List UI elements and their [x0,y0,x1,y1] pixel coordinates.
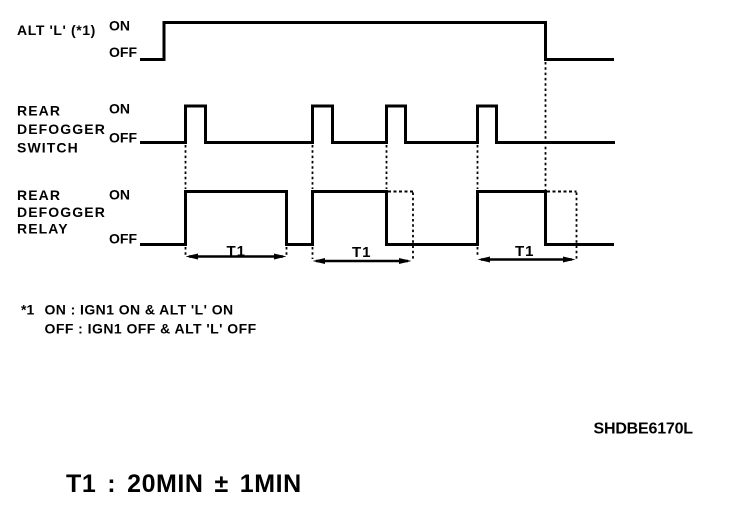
svg-text:OFF: OFF [109,44,137,60]
T1 label 1 [227,243,247,260]
OFF level label row3 [109,231,137,247]
waveform ALT 'L' [140,23,614,60]
T1 label 2 [352,244,372,261]
svg-text:OFF: OFF [109,130,137,146]
waveform REAR DEFOGGER SWITCH [140,106,615,143]
svg-text:OFF: OFF [109,231,137,247]
ON level label row1 [109,18,130,34]
svg-text:T1 : 20MIN ± 1MIN: T1 : 20MIN ± 1MIN [66,470,302,498]
signal label REAR DEFOGGER RELAY [17,187,106,237]
dotted timing line at switch pulse2 rise x=312.5 [312,145,314,259]
svg-text:REAR: REAR [17,103,61,119]
footnote *1 line 1 [21,302,234,318]
footnote *1 line 2 [45,321,257,337]
svg-text:DEFOGGER: DEFOGGER [17,121,106,137]
dotted timing line at switch pulse1 rise x=185.5 [185,145,187,256]
figure code SHDBE6170L [594,421,694,438]
T1 interval arrow 3 [478,257,576,263]
svg-text:*1: *1 [21,302,34,318]
signal label REAR DEFOGGER SWITCH [17,103,106,156]
svg-text:ON: ON [109,101,130,117]
svg-text:OFF : IGN1 OFF & ALT 'L' OFF: OFF : IGN1 OFF & ALT 'L' OFF [45,321,257,337]
svg-text:T1: T1 [352,244,372,261]
T1 definition caption [66,470,302,498]
dotted timing line at relay pulse1 fall x=286.5 [286,247,288,256]
OFF level label row1 [109,44,137,60]
svg-text:ON: ON [109,187,130,203]
dotted timing line at ALT 'L' fall x=545.5 [545,62,547,190]
dotted relay pulse2 T1 end: top extension and vertical at x=413 [388,192,413,262]
OFF level label row2 [109,130,137,146]
svg-text:REAR: REAR [17,187,61,203]
T1 interval arrow 1 [186,254,287,260]
T1 label 3 [515,243,535,260]
dotted timing line at switch pulse3 rise x=386.5 [386,145,388,189]
svg-text:SHDBE6170L: SHDBE6170L [594,421,694,438]
ON level label row2 [109,101,130,117]
svg-text:SWITCH: SWITCH [17,140,79,156]
ON level label row3 [109,187,130,203]
T1 interval arrow 2 [313,258,412,264]
svg-text:T1: T1 [515,243,535,260]
svg-text:ALT 'L' (*1): ALT 'L' (*1) [17,22,96,38]
svg-text:T1: T1 [227,243,247,260]
signal label ALT 'L' (*1) [17,22,96,38]
dotted timing line at switch pulse4 rise x=477.5 [477,145,479,257]
svg-text:ON : IGN1 ON & ALT 'L' ON: ON : IGN1 ON & ALT 'L' ON [45,302,234,318]
svg-text:RELAY: RELAY [17,221,69,237]
svg-text:ON: ON [109,18,130,34]
waveform REAR DEFOGGER RELAY [140,192,614,245]
dotted relay pulse3 T1 end: top extension and vertical at x=576.5 [547,192,577,261]
svg-text:DEFOGGER: DEFOGGER [17,204,106,220]
